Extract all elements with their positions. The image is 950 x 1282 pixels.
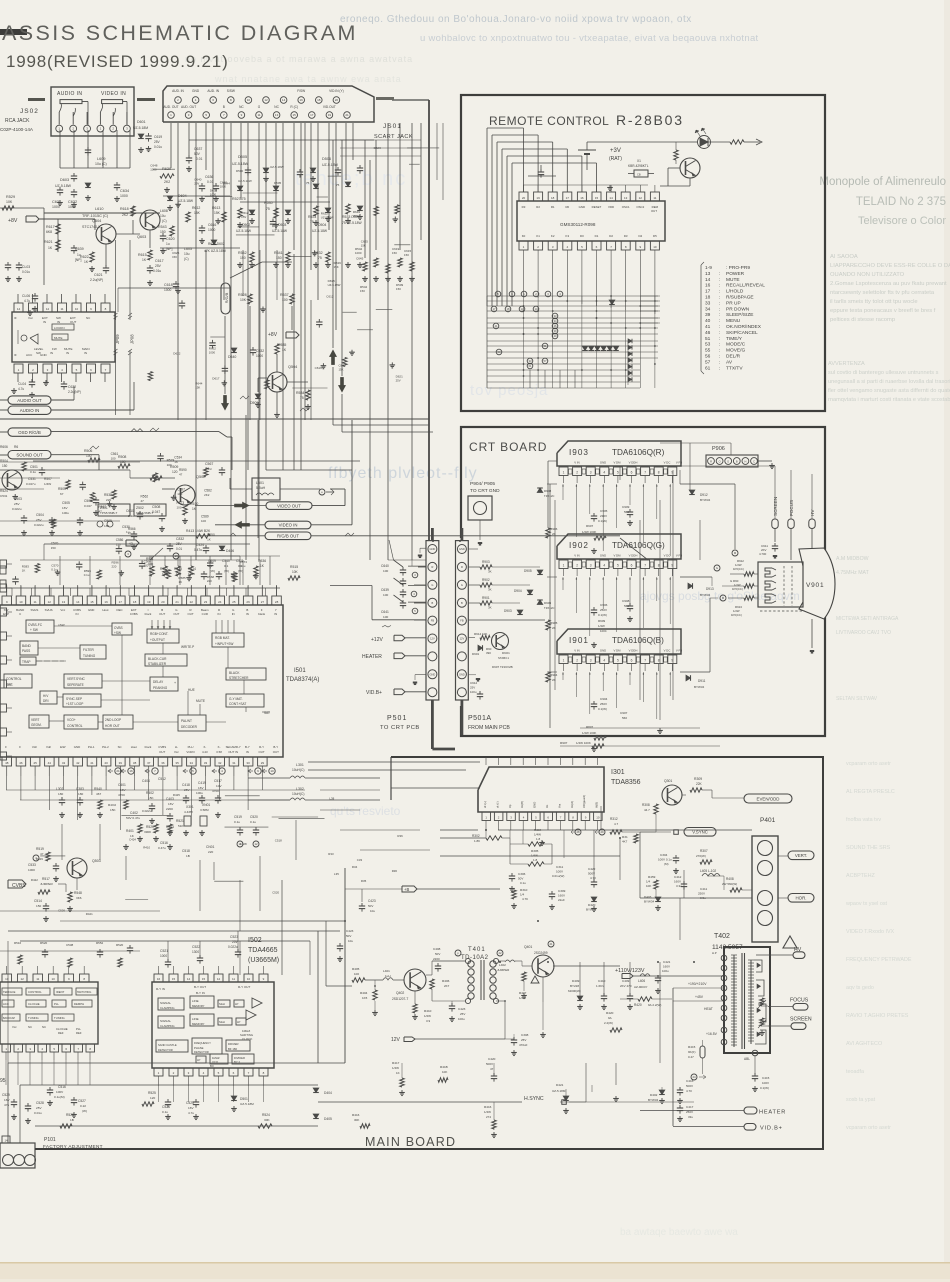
svg-text:470uF: 470uF	[519, 1043, 528, 1047]
svg-text:R903: R903	[482, 560, 490, 564]
svg-text:BANDCAP: BANDCAP	[3, 1017, 15, 1020]
svg-text:SEPERATE: SEPERATE	[67, 683, 84, 687]
svg-text:R902: R902	[482, 578, 490, 582]
svg-text:+8V: +8V	[268, 332, 278, 338]
svg-text:R: R	[710, 460, 712, 464]
svg-text:LINE: LINE	[192, 1017, 199, 1021]
remote control board outline	[461, 95, 825, 411]
svg-text:C529: C529	[2, 1093, 10, 1097]
wire bundle left of IC	[486, 128, 488, 306]
I501 area top extra wires	[59, 556, 61, 585]
svg-text:MEMORY: MEMORY	[192, 1004, 205, 1008]
transistor Q604	[96, 224, 116, 244]
svg-text:50V: 50V	[518, 877, 523, 881]
svg-text:25V: 25V	[396, 379, 401, 383]
svg-text:R35: R35	[361, 879, 367, 883]
svg-text:PASS: PASS	[22, 649, 30, 653]
svg-text:26: 26	[246, 600, 250, 604]
svg-text:Q504: Q504	[288, 365, 297, 369]
svg-text:C521: C521	[160, 949, 168, 953]
svg-text:(C): (C)	[184, 257, 189, 261]
svg-text:21: 21	[116, 769, 120, 773]
capacitor C1 reset	[538, 171, 544, 173]
svg-text:100u: 100u	[470, 690, 477, 694]
svg-text:C423: C423	[346, 929, 354, 933]
svg-text:R541: R541	[274, 251, 283, 255]
svg-text:2: 2	[576, 471, 578, 475]
svg-text:unegunsall a si parti di: unegunsall a si parti di ruaerbse lovsll…	[828, 379, 950, 385]
svg-text:100: 100	[144, 563, 149, 567]
svg-text:TDA6106Q(R): TDA6106Q(R)	[612, 448, 665, 457]
svg-text:29: 29	[600, 830, 604, 834]
svg-text:11: 11	[232, 977, 235, 981]
svg-text:R542: R542	[238, 251, 247, 255]
svg-text:UZ-5.18W: UZ-5.18W	[236, 229, 252, 233]
svg-text:2: 2	[576, 659, 578, 663]
svg-text:R-Y IN: R-Y IN	[156, 987, 165, 991]
svg-text:HOR OUT: HOR OUT	[105, 724, 120, 728]
svg-text:SYNC.SEP: SYNC.SEP	[66, 697, 82, 701]
svg-text:R302: R302	[472, 834, 480, 838]
svg-text:75: 75	[318, 256, 322, 260]
svg-text:R534: R534	[296, 391, 304, 395]
svg-text:C620: C620	[166, 237, 175, 241]
svg-text:10K: 10K	[292, 570, 299, 574]
svg-text:50V: 50V	[346, 934, 351, 938]
svg-text:C832: C832	[176, 537, 184, 541]
svg-text:R6: R6	[14, 445, 18, 449]
svg-text:62000(W): 62000(W)	[568, 989, 581, 993]
svg-text:PH-1: PH-1	[88, 745, 95, 749]
svg-text:JS01: JS01	[383, 123, 402, 130]
svg-text::: :	[719, 366, 720, 371]
svg-text::: :	[719, 355, 720, 360]
svg-text:R907: R907	[560, 741, 568, 745]
svg-text:20: 20	[522, 196, 526, 200]
svg-text:23: 23	[204, 600, 208, 604]
pill V.SYNC	[674, 830, 679, 835]
svg-text:B-Y IN: B-Y IN	[196, 991, 205, 995]
IC I501 body	[0, 605, 283, 757]
svg-text:15K: 15K	[110, 808, 116, 812]
svg-text:R36: R36	[397, 834, 403, 838]
transistor Q301	[662, 785, 682, 805]
svg-text:R617: R617	[46, 225, 55, 229]
svg-text:1000: 1000	[120, 194, 128, 198]
svg-text:B: B	[223, 105, 225, 109]
transistor Q901	[492, 633, 509, 650]
svg-text:SC: SC	[118, 745, 122, 749]
svg-text:V DC: V DC	[664, 554, 671, 558]
svg-text:0.022u: 0.022u	[34, 523, 44, 527]
svg-text:0.1u: 0.1u	[234, 820, 240, 824]
svg-text:150: 150	[396, 287, 401, 291]
svg-text:Vp: Vp	[508, 804, 512, 808]
svg-text:3: 3	[590, 471, 592, 475]
svg-text:10uH(C): 10uH(C)	[292, 792, 304, 796]
I501 block CVBS+SW	[112, 623, 132, 635]
svg-text:50V 0.47u: 50V 0.47u	[126, 816, 140, 820]
I501 block RGB CONT OUTPUT	[147, 629, 179, 643]
svg-text:C423: C423	[458, 1007, 466, 1011]
svg-text:UZ-5.18W: UZ-5.18W	[178, 199, 194, 203]
svg-text:25V: 25V	[155, 264, 162, 268]
svg-text:C424: C424	[196, 543, 204, 547]
svg-text:OUT: OUT	[273, 750, 279, 754]
svg-text:MEMORY: MEMORY	[192, 1022, 205, 1026]
svg-text:C640: C640	[381, 564, 389, 568]
svg-text:41: 41	[90, 761, 94, 765]
svg-text:1/4W 100K: 1/4W 100K	[582, 731, 596, 735]
svg-text:S&H: S&H	[219, 1020, 225, 1024]
svg-text:15K: 15K	[172, 255, 177, 259]
svg-text:D403: D403	[644, 895, 652, 899]
svg-text:D623: D623	[374, 146, 382, 150]
svg-text:27: 27	[261, 600, 265, 604]
svg-text:2200: 2200	[166, 807, 173, 811]
svg-text:R459: R459	[648, 875, 656, 879]
svg-text:OSC1: OSC1	[622, 205, 630, 209]
svg-text:TZX12C: TZX12C	[544, 494, 554, 498]
svg-text:SVHS: SVHS	[45, 608, 53, 612]
svg-text:560: 560	[622, 716, 627, 720]
svg-text:0.1u: 0.1u	[520, 881, 526, 885]
svg-text:C501: C501	[30, 465, 38, 469]
svg-text:(M): (M)	[664, 862, 669, 866]
svg-text:8: 8	[658, 564, 660, 568]
IC I801 pins top	[2, 974, 12, 982]
svg-text:30K: 30K	[354, 1118, 359, 1122]
svg-text:15K: 15K	[194, 211, 201, 215]
svg-text:0.01: 0.01	[176, 547, 182, 551]
svg-text:TTX/TV: TTX/TV	[726, 365, 743, 371]
svg-text:PLL/: PLL/	[188, 745, 194, 749]
svg-text:SCREEN: SCREEN	[790, 1017, 812, 1023]
svg-text:30K: 30K	[264, 1118, 270, 1122]
svg-text:L402: L402	[499, 963, 506, 967]
svg-text:D9O1: D9O1	[502, 651, 510, 655]
svg-text:R550: R550	[207, 533, 215, 537]
capacitor C619	[145, 135, 151, 137]
svg-text:4.43M: 4.43M	[184, 810, 193, 814]
svg-text:EXP: EXP	[3, 612, 9, 616]
diode D602	[211, 240, 217, 245]
svg-text:D404: D404	[324, 1091, 332, 1095]
svg-text:0.1u: 0.1u	[84, 573, 90, 577]
svg-text:P401: P401	[760, 817, 776, 824]
svg-text:C619: C619	[154, 135, 162, 139]
svg-text:7: 7	[644, 471, 646, 475]
pill CVBS	[33, 855, 39, 861]
wire verticals scart right	[364, 140, 366, 258]
svg-text:1300: 1300	[192, 950, 199, 954]
svg-text:1-9: 1-9	[705, 265, 712, 271]
svg-text:IN: IN	[66, 351, 69, 355]
svg-text:+B: +B	[128, 541, 133, 546]
svg-text:250V: 250V	[600, 608, 607, 612]
svg-text:C634: C634	[120, 189, 129, 193]
svg-text:TPS5.5MB-T: TPS5.5MB-T	[100, 511, 118, 515]
svg-text:I901: I901	[569, 636, 589, 645]
svg-text:peltices di stesse racomp: peltices di stesse racomp	[830, 317, 895, 323]
svg-text:Vra: Vra	[557, 803, 561, 808]
svg-text:R34: R34	[352, 865, 358, 869]
svg-text:R505: R505	[58, 487, 66, 491]
svg-text:4.70: 4.70	[686, 1089, 692, 1093]
svg-text:16V: 16V	[62, 506, 68, 510]
svg-text:467: 467	[96, 792, 101, 796]
svg-text:GND: GND	[600, 649, 606, 653]
svg-text:36: 36	[161, 761, 165, 765]
svg-text:C520: C520	[250, 815, 258, 819]
svg-text:D420: D420	[588, 903, 596, 907]
svg-text:41: 41	[495, 324, 498, 328]
svg-text:12: 12	[46, 307, 50, 311]
svg-text:R528: R528	[238, 293, 247, 297]
svg-text:100V: 100V	[556, 870, 563, 874]
svg-text:C527: C527	[78, 1099, 86, 1103]
svg-text:25V: 25V	[241, 215, 246, 219]
svg-text:150: 150	[360, 289, 365, 293]
svg-text:R407: R407	[519, 991, 527, 995]
svg-text:10: 10	[653, 245, 657, 249]
svg-text:50V: 50V	[194, 152, 201, 156]
upper area more verticals from scart	[259, 250, 261, 420]
svg-text:2SO2499: 2SO2499	[534, 951, 548, 955]
svg-text:33: 33	[204, 761, 208, 765]
R420 9A 2.2(W)	[638, 997, 652, 1001]
svg-text:4.700: 4.700	[759, 552, 767, 556]
svg-text:UZ-5.18W: UZ-5.18W	[322, 163, 339, 167]
svg-text:IF: IF	[14, 353, 17, 357]
svg-text:D601: D601	[137, 120, 146, 124]
svg-text:R905: R905	[550, 621, 558, 625]
svg-text:R422: R422	[31, 878, 38, 882]
wires cluster	[0, 477, 60, 479]
svg-text:C504: C504	[36, 513, 44, 517]
svg-text:D500: D500	[236, 169, 244, 173]
page crop dashes	[137, 98, 155, 101]
svg-text:C641: C641	[381, 610, 389, 614]
svg-text:VIDEO OUT: VIDEO OUT	[277, 503, 301, 508]
svg-text:(W): (W)	[210, 569, 215, 573]
svg-text:Q401: Q401	[524, 945, 532, 949]
svg-text::: :	[719, 319, 720, 324]
svg-text:8: 8	[658, 659, 660, 663]
pill VIDEO OUT	[195, 505, 266, 507]
main board bottom outline	[35, 757, 823, 1149]
svg-text:12: 12	[217, 977, 221, 981]
svg-text:500V: 500V	[486, 1062, 493, 1066]
svg-text:18: 18	[507, 307, 510, 311]
svg-text:SOUND OUT: SOUND OUT	[16, 453, 43, 458]
jumper JP08	[129, 240, 131, 320]
svg-text:C420: C420	[488, 1057, 496, 1061]
svg-text:D402: D402	[650, 1093, 658, 1097]
svg-text:BO: BO	[210, 1064, 214, 1068]
svg-text:3.3u: 3.3u	[676, 884, 682, 888]
wires T401 area	[326, 985, 352, 987]
svg-text:L/HOLD: L/HOLD	[726, 289, 744, 295]
svg-text:R/G/B: R/G/B	[224, 292, 229, 303]
svg-text:10: 10	[270, 769, 274, 773]
svg-text:32: 32	[218, 761, 222, 765]
svg-text:390K: 390K	[144, 830, 152, 834]
svg-text:R566: R566	[128, 527, 136, 531]
svg-text:TUNING: TUNING	[54, 1016, 65, 1020]
svg-text:aqv ts gedo: aqv ts gedo	[846, 985, 874, 991]
IC U1 GMS30112 top pins	[519, 192, 528, 201]
svg-text:1/4W 100K: 1/4W 100K	[576, 741, 591, 745]
svg-text:D2: D2	[609, 234, 613, 238]
svg-text:H.P: H.P	[712, 951, 717, 955]
svg-text:OUT: OUT	[159, 750, 165, 754]
svg-text:R508: R508	[118, 455, 126, 459]
svg-text:46: 46	[705, 330, 711, 336]
svg-text:P501: P501	[387, 715, 407, 722]
T402 secondary winding hatch	[750, 960, 752, 1044]
svg-text:P904/ P905: P904/ P905	[470, 481, 495, 487]
svg-text:1K: 1K	[174, 460, 178, 464]
svg-text:C538: C538	[66, 943, 74, 947]
IC I501 bottom pin row	[2, 757, 12, 766]
I501 block DELAY PEAKING	[150, 677, 178, 691]
svg-text:2K2: 2K2	[164, 180, 170, 184]
svg-text:3.58: 3.58	[216, 750, 222, 754]
svg-text:FROM MAIN PCB: FROM MAIN PCB	[468, 725, 510, 731]
svg-text:0.01u: 0.01u	[154, 145, 162, 149]
svg-text:10uH(C): 10uH(C)	[292, 768, 304, 772]
svg-text:FOCUS: FOCUS	[790, 998, 809, 1004]
diode D604	[167, 196, 173, 201]
svg-text:VERT.SYNC: VERT.SYNC	[67, 677, 86, 681]
svg-text:0.1(W): 0.1(W)	[598, 707, 607, 711]
JS01 scart pins row even	[175, 97, 182, 104]
svg-text:+190/+210V: +190/+210V	[688, 982, 707, 986]
I502 block line memory 2	[190, 1014, 214, 1026]
svg-text:AUD. OUT: AUD. OUT	[181, 105, 196, 109]
svg-text:ASSIS SCHEMATIC DIAGRAM: ASSIS SCHEMATIC DIAGRAM	[2, 21, 358, 45]
wires from scart pins down	[170, 123, 172, 168]
svg-text:1/4: 1/4	[520, 893, 525, 897]
svg-text:R415: R415	[688, 1045, 696, 1049]
svg-text:R0: R0	[565, 205, 569, 209]
IC I902 pins	[559, 560, 568, 569]
svg-text:1/4: 1/4	[646, 880, 651, 884]
svg-text:I902: I902	[569, 541, 589, 550]
svg-text:REF: REF	[76, 1031, 82, 1035]
svg-text:X301: X301	[186, 805, 194, 809]
svg-text:AI SAOOA: AI SAOOA	[830, 254, 858, 260]
svg-text:0.1u: 0.1u	[51, 567, 57, 571]
svg-text:Vo: Vo	[545, 804, 549, 808]
svg-text:D4: D4	[638, 234, 642, 238]
svg-text:44.7: 44.7	[644, 808, 650, 812]
svg-text:50V: 50V	[435, 952, 440, 956]
svg-text:R-28B03: R-28B03	[616, 112, 684, 128]
svg-text:eroneqo. Gthedouu on Bo'ohoua.: eroneqo. Gthedouu on Bo'ohoua.Jonaro-vo …	[340, 14, 692, 25]
I601 pins bottom	[14, 364, 23, 373]
connector P501 to CRT PCB	[426, 541, 439, 700]
svg-text:33: 33	[705, 300, 711, 306]
svg-text:4.75MHz MAT: 4.75MHz MAT	[836, 570, 870, 576]
svg-text:100V 0.1u: 100V 0.1u	[658, 858, 672, 862]
svg-text:C531: C531	[28, 477, 36, 481]
svg-text:100: 100	[177, 492, 182, 496]
svg-text:OUT IN: OUT IN	[228, 750, 238, 754]
svg-text:I502: I502	[248, 937, 262, 944]
svg-text:JS02: JS02	[20, 108, 39, 115]
svg-text:TDA4665: TDA4665	[248, 947, 278, 954]
svg-text:PH-2: PH-2	[102, 745, 109, 749]
svg-text:4K7: 4K7	[622, 840, 628, 844]
I502 block LP VCO divider	[196, 1056, 206, 1063]
svg-text:R613: R613	[212, 206, 220, 210]
more long verticals upper mid	[205, 250, 207, 420]
svg-text:5: 5	[617, 471, 619, 475]
svg-text:OUT: OUT	[70, 320, 77, 324]
warning triangle	[783, 936, 797, 948]
IC I502 body	[152, 982, 274, 1068]
horizontal rail y556	[140, 555, 280, 557]
svg-text:150: 150	[116, 543, 121, 547]
svg-text:TDA6106Q(B): TDA6106Q(B)	[612, 636, 664, 645]
svg-text:LIVTIVAROO CAVJ TVO: LIVTIVAROO CAVJ TVO	[836, 630, 891, 636]
svg-text:4700: 4700	[212, 789, 219, 793]
svg-text:3K: 3K	[488, 606, 492, 610]
svg-text:D505: D505	[238, 155, 247, 159]
svg-text:1000: 1000	[210, 193, 217, 197]
svg-text:BYW34: BYW34	[694, 685, 705, 689]
svg-text:1K: 1K	[22, 568, 26, 572]
diode D406	[219, 546, 225, 551]
I501 block VERT SYNC	[64, 674, 102, 688]
svg-text:C582: C582	[204, 489, 212, 493]
svg-text::: :	[719, 313, 720, 318]
svg-text:STABILIZER: STABILIZER	[148, 662, 167, 666]
svg-text:28: 28	[275, 600, 279, 604]
I501 block PAL/NT	[178, 715, 206, 731]
svg-text:4.7: 4.7	[614, 822, 619, 826]
svg-text:K1: K1	[536, 234, 540, 238]
svg-text:V DM: V DM	[614, 461, 622, 465]
svg-text:AUDIO OUT: AUDIO OUT	[17, 398, 42, 403]
svg-text:7: 7	[644, 564, 646, 568]
svg-text:0.022u: 0.022u	[142, 809, 152, 813]
svg-text:VCRO: VCRO	[186, 750, 195, 754]
svg-text:11: 11	[653, 196, 656, 200]
wires q604 area	[57, 219, 59, 252]
svg-text:220: 220	[106, 498, 111, 502]
svg-text:OUT: OUT	[159, 612, 165, 616]
svg-text:R612: R612	[192, 206, 200, 210]
svg-text:1B: 1B	[70, 1118, 74, 1122]
svg-text:Hout: Hout	[102, 608, 108, 612]
svg-text:UZ-5.18W: UZ-5.18W	[272, 229, 288, 233]
diodes D905 D904 D903	[537, 570, 543, 575]
svg-text:100: 100	[354, 972, 359, 976]
svg-text:0.47: 0.47	[688, 1055, 694, 1059]
svg-text:UZ-5.18M: UZ-5.18M	[240, 1102, 254, 1106]
svg-text:150: 150	[404, 253, 409, 257]
svg-text:CRT BOARD: CRT BOARD	[469, 440, 547, 454]
svg-text:1/4W: 1/4W	[531, 854, 538, 858]
svg-text:C516: C516	[58, 1085, 66, 1089]
svg-text:+: +	[174, 681, 176, 685]
svg-text:R: R	[431, 565, 433, 569]
svg-text:47: 47	[141, 499, 145, 503]
svg-text:PLL: PLL	[54, 1002, 59, 1006]
